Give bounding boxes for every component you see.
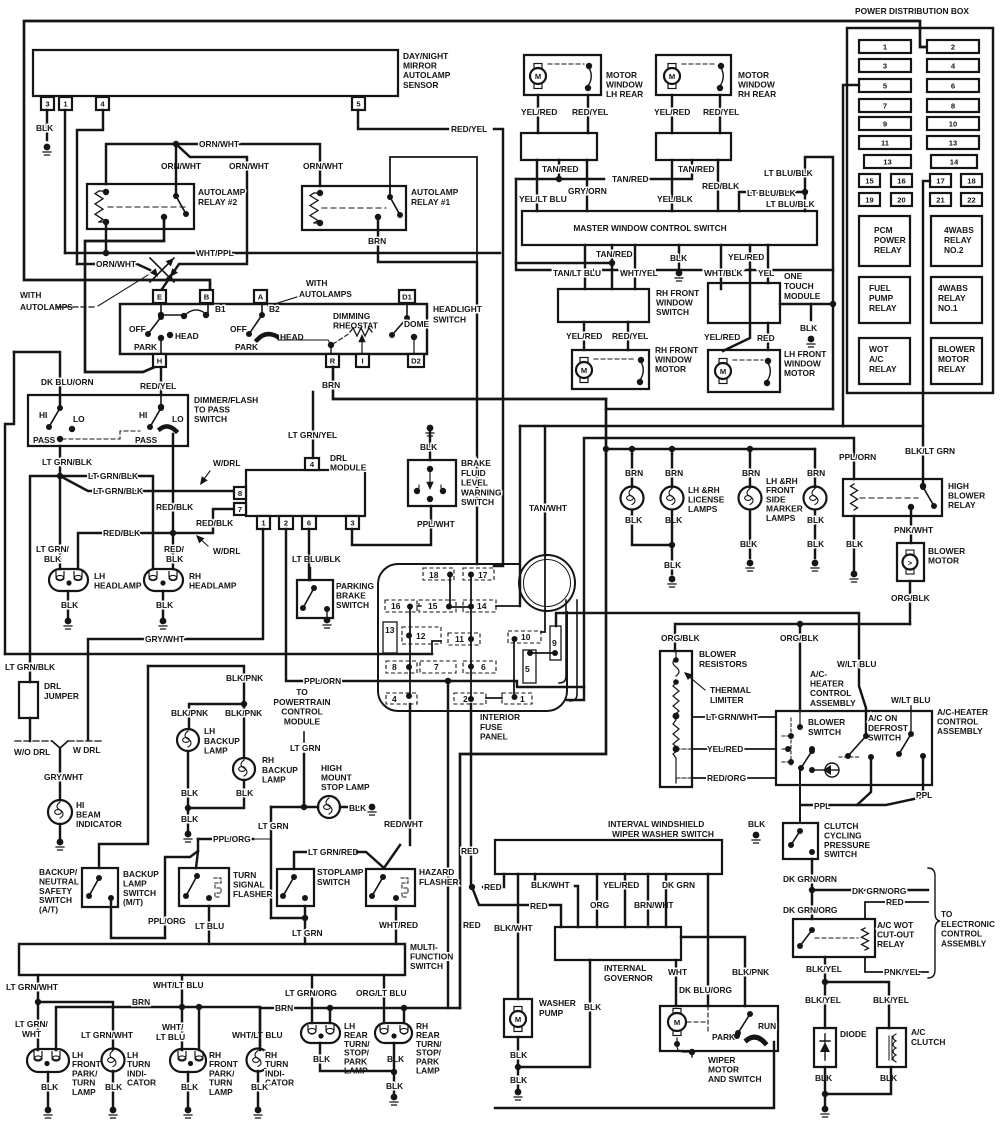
svg-text:YEL/RED: YEL/RED [566,331,602,341]
svg-text:PASS: PASS [135,435,158,445]
wire to I pin [361,345,363,354]
junction BRN bus x672 [669,446,675,452]
svg-text:INTERNAL: INTERNAL [604,963,646,973]
wire ORN/WHT down to relay2 contact [175,147,177,195]
wire BRN lamp1 [631,449,633,487]
relay2 dashed link [108,206,188,208]
component DIMMER/FLASH TO PASS SWITCH box [28,395,188,446]
wire license BLK ground [671,510,673,574]
component RH REAR TURN/STOP/PARK LAMP [375,1023,412,1043]
svg-text:9: 9 [883,120,887,129]
wire RED pin jog [483,874,504,887]
svg-text:RED/YEL: RED/YEL [703,107,739,117]
junction BRN bus x750 [747,446,753,452]
dimmer right arm [150,408,161,427]
interior fuse 12 [402,627,441,644]
svg-text:TO PASS: TO PASS [194,405,230,415]
pin 3 of sensor [41,97,54,110]
svg-text:7: 7 [434,662,439,672]
junction DK GRN/ORG [809,887,815,893]
thick RUN position arc [747,1037,765,1043]
svg-text:BLK: BLK [156,600,173,610]
svg-text:M: M [674,1018,680,1027]
thick LO position arc [160,426,176,431]
svg-text:12: 12 [416,631,426,641]
svg-text:BLOWER: BLOWER [808,717,845,727]
wire dimmer to LT GRN/BLK node [59,446,61,476]
svg-text:BLK: BLK [665,515,682,525]
svg-text:LT GRN/: LT GRN/ [15,1019,49,1029]
svg-text:LH FRONT: LH FRONT [784,349,827,359]
svg-text:BLK: BLK [846,539,863,549]
component LH FRONT WINDOW MOTOR box [708,350,780,392]
svg-text:BRN: BRN [742,468,760,478]
wire RED one touch to motor [767,323,769,350]
wire PPL/ORG riser [165,851,198,938]
ground HI beam indicator [56,839,64,850]
svg-text:BLK: BLK [880,1073,897,1083]
svg-text:21: 21 [936,196,945,205]
svg-text:LT GRN: LT GRN [292,928,323,938]
wire YEL/RED RH front [583,322,585,350]
svg-text:WHT: WHT [668,967,688,977]
svg-text:RED/: RED/ [164,544,185,554]
svg-text:OFF: OFF [230,324,247,334]
svg-text:BLK: BLK [41,1082,58,1092]
svg-text:MIRROR: MIRROR [403,61,437,71]
svg-text:19: 19 [865,196,873,205]
relay1 common contact [375,214,381,220]
junction WHT/LT BLU [179,1004,185,1010]
wire RED/WHT fuse4 down [409,704,411,845]
svg-text:LAMP: LAMP [209,1087,233,1097]
fuse 15 power box small [859,174,880,187]
wire PNK/YEL [865,957,928,972]
wire RED/BLK pin7 run [78,509,234,569]
junction BLK license [669,542,675,548]
pin 3 DRL module [346,516,359,529]
svg-text:BRN: BRN [132,997,150,1007]
svg-text:E: E [157,293,162,302]
interior fuse 6 [463,661,496,673]
leader thermal limiter [686,674,705,690]
dash link rheostat [333,333,350,344]
svg-text:ORN/WHT: ORN/WHT [96,259,137,269]
svg-text:WINDOW: WINDOW [738,80,775,90]
wire BRN to RH park lamp [198,1007,200,1050]
svg-text:WHT/LT BLU: WHT/LT BLU [232,1030,283,1040]
pin 2 DRL module [279,516,293,529]
wire RED/YEL RH rear [719,95,721,133]
ground backup lamps [184,831,192,842]
component TURN SIGNAL FLASHER box [179,868,229,906]
svg-text:RH: RH [262,755,274,765]
svg-text:OFF: OFF [129,324,146,334]
wire ORG/BLK into blower switch [799,711,801,725]
wire LT GRN/BLK long line [5,653,432,655]
fuse 2R power box [927,40,979,53]
svg-text:HAZARD: HAZARD [419,867,454,877]
svg-text:LT GRN: LT GRN [290,743,321,753]
svg-text:YEL: YEL [758,268,774,278]
component INTERNAL GOVERNOR box [555,927,681,960]
component STOPLAMP SWITCH box [277,869,314,906]
wire PPL/ORG horizontal [198,838,253,840]
illumination lamp symbol [823,763,839,777]
svg-text:PPL: PPL [916,790,932,800]
svg-text:FLUID: FLUID [461,468,486,478]
svg-text:LO: LO [172,414,184,424]
svg-text:LT GRN: LT GRN [258,821,289,831]
wire jumper to W/O DRL connector [29,718,31,741]
svg-text:RED/YEL: RED/YEL [451,124,487,134]
svg-text:7: 7 [883,102,887,111]
svg-text:ORN/WHT: ORN/WHT [199,139,240,149]
rheostat zigzag [350,328,372,336]
fuse 10R power box [927,117,979,130]
motor M RH front [576,358,592,383]
junction BLK [822,1091,828,1097]
svg-text:RED: RED [484,882,502,892]
ground pin3 [43,144,51,155]
wire LH park ground [47,1072,49,1106]
wire WHT/RED [395,906,397,944]
wire ORG/BLK blower motor [909,581,911,624]
wire TAN/RED stub LH [558,160,560,179]
svg-text:LT BLU/BLK: LT BLU/BLK [747,188,796,198]
svg-text:I: I [361,357,363,366]
svg-text:DOME: DOME [404,319,430,329]
svg-text:MODULE: MODULE [330,463,367,473]
svg-text:PASS: PASS [33,435,56,445]
svg-text:6: 6 [307,519,311,528]
svg-text:ORN/WHT: ORN/WHT [303,161,344,171]
fuse 7 power box [859,99,911,112]
junction BLK backup [185,805,191,811]
pin I [356,354,369,367]
ground marker RH [811,560,819,571]
wire LT BLU/BLK into parking brake [309,568,311,580]
svg-text:DK GRN/ORG: DK GRN/ORG [852,886,906,896]
svg-text:W/LT BLU: W/LT BLU [891,695,930,705]
component side marker lamp LH [739,487,762,510]
wire DK BLU/ORG to wiper motor [707,874,709,1006]
fuse 4R power box [927,59,979,72]
clutch cycling switch arm [791,831,800,845]
wire defrost common PPL to clutch cycling switch [801,757,871,805]
wire DK GRN/ORN [811,859,813,890]
wire fuse14 to rail [496,605,520,607]
svg-text:DAY/NIGHT: DAY/NIGHT [403,51,449,61]
svg-text:BLK: BLK [105,1082,122,1092]
junction RED/BLK [170,530,176,536]
svg-text:WITH: WITH [306,278,327,288]
RH rear switch contact [718,63,724,69]
wire RUN to bottom rail [495,1042,774,1108]
wire BLK/PNK to backup lamp switch [99,666,148,868]
svg-text:CONTROL: CONTROL [937,717,978,727]
svg-text:YEL/RED: YEL/RED [521,107,557,117]
svg-text:2: 2 [284,519,288,528]
svg-text:RED: RED [757,333,775,343]
LH front motor contact [765,358,771,364]
svg-text:ASSEMBLY: ASSEMBLY [941,938,987,948]
relay1 dashed link [322,207,386,209]
svg-text:BRN: BRN [625,468,643,478]
svg-text:SENSOR: SENSOR [403,80,438,90]
component RH FRONT PARK/TURN LAMP [170,1049,206,1072]
fuse 22 power box small [961,193,982,206]
svg-text:RH FRONT: RH FRONT [655,345,699,355]
wire diode BLK [824,1067,826,1094]
svg-text:TO: TO [941,909,953,919]
svg-text:INTERVAL WINDSHIELD: INTERVAL WINDSHIELD [608,819,704,829]
svg-text:HEAD: HEAD [175,331,199,341]
svg-text:TAN/RED: TAN/RED [678,164,715,174]
wire pin4 down (ORN/WHT) [77,110,103,264]
wire RH rear BLK [393,1043,395,1094]
svg-text:20: 20 [897,196,905,205]
svg-text:H: H [157,357,162,366]
svg-text:15: 15 [428,601,438,611]
junction LT GRN [302,915,308,921]
wire RED/BLK RH rear [717,160,719,211]
wire LT GRN/WHT resistor to A/C switch [692,716,776,718]
ground RH indicator [254,1107,262,1118]
svg-text:RELAY #2: RELAY #2 [198,197,237,207]
wire rail y270 to one-touch riser [516,263,833,270]
wire BLK/PNK governor to wiper motor [681,937,745,1006]
component RH HEADLAMP [144,569,183,591]
svg-text:WINDOW: WINDOW [606,80,643,90]
svg-text:TAN/RED: TAN/RED [542,164,579,174]
svg-text:FUEL: FUEL [869,283,891,293]
pin H [153,354,166,367]
wire to high mount stop lamp [271,806,318,808]
svg-text:11: 11 [881,139,890,148]
wire BRN/WHT [647,874,649,927]
junction relay2 coil / WHT/PPL [103,250,109,256]
wire BRN bus right [260,1007,460,1009]
svg-text:SWITCH: SWITCH [336,600,369,610]
component RH TURN INDICATOR lamp [247,1049,270,1072]
ground marker LH [746,560,754,571]
svg-text:BLK: BLK [670,253,687,263]
wire E pin stub [160,303,162,314]
svg-text:5: 5 [525,664,530,674]
wire LH indicator ground [112,1071,114,1106]
svg-text:RED/WHT: RED/WHT [384,819,424,829]
svg-text:STOPLAMP: STOPLAMP [317,867,364,877]
fuse 8R power box [927,99,979,112]
wiper switch arm [738,1014,750,1033]
wire PPL right pin join [857,758,923,805]
svg-text:LT GRN/ORG: LT GRN/ORG [285,988,337,998]
wire backup switch PPL/ORG [111,898,165,938]
svg-text:6: 6 [481,662,486,672]
backup switch arm [89,878,99,896]
leader dash-dot with autolamps [57,306,96,308]
svg-text:RED: RED [886,897,904,907]
wire RED to governor [472,887,561,927]
svg-text:W/DRL: W/DRL [213,458,240,468]
svg-text:M: M [720,367,726,376]
wire DK GRN/ORG right [812,889,928,891]
svg-text:LT BLU/BLK: LT BLU/BLK [292,554,341,564]
wire BRN to RH rear lamp [403,1008,405,1023]
wire ORG/LT BLU [383,975,385,1023]
interior fuse 9 [550,626,561,660]
svg-text:WIPER WASHER SWITCH: WIPER WASHER SWITCH [612,829,714,839]
svg-text:LT GRN/BLK: LT GRN/BLK [93,486,143,496]
wire LT BLU/BLK riser x833 [805,157,833,409]
svg-text:LT GRN/WHT: LT GRN/WHT [81,1030,134,1040]
svg-text:9: 9 [552,638,557,648]
svg-text:WINDOW: WINDOW [655,355,692,365]
component AUTOLAMP RELAY #1 box [302,186,406,230]
svg-text:LAMP: LAMP [204,746,228,756]
wire ORG/BLK bus [675,624,910,651]
wire junction down to BRN bus right end [447,681,449,1008]
svg-text:POWER DISTRIBUTION BOX: POWER DISTRIBUTION BOX [855,6,969,16]
component BLOWER MOTOR RELAY box [931,338,982,384]
ground master switch [675,270,683,281]
svg-text:LT GRN/WHT: LT GRN/WHT [706,712,759,722]
wire LT BLU [208,906,210,944]
wire BLK/PNK bus [189,704,244,729]
svg-text:4WABS: 4WABS [944,225,974,235]
svg-text:ORG: ORG [590,900,609,910]
svg-text:LEVEL: LEVEL [461,478,488,488]
pin 4 of sensor [96,97,109,110]
wire fuse16-12-8-4 link [409,607,411,696]
svg-text:ORN/WHT: ORN/WHT [229,161,270,171]
svg-text:BLK: BLK [236,788,253,798]
ground diode/clutch [821,1106,829,1117]
component BACKUP LAMP SWITCH box [82,868,118,907]
junction RED [469,884,475,890]
wire LT GRN/BLK to DRL module pin8 [60,476,234,491]
component POWER DISTRIBUTION BOX outline [847,28,993,393]
fuse 13R power box [927,136,979,149]
svg-text:YEL/RED: YEL/RED [654,107,690,117]
junction BRN bus left [603,446,609,452]
pin A [254,290,267,303]
svg-text:BLK: BLK [61,600,78,610]
svg-text:HI: HI [39,410,47,420]
junction BRN RH park [196,1004,202,1010]
WOT relay arm [800,930,812,946]
wire BRN lamp2 [671,449,673,487]
svg-text:FLASHER: FLASHER [233,889,273,899]
ground high mount stop lamp [368,804,376,815]
svg-text:BLK: BLK [181,814,198,824]
svg-text:RED: RED [530,901,548,911]
svg-text:YEL/LT BLU: YEL/LT BLU [519,194,567,204]
svg-text:BLK/YEL: BLK/YEL [805,995,841,1005]
relay1 switch arm [390,197,400,215]
component DRL MODULE box [246,470,365,516]
svg-text:BLK/YEL: BLK/YEL [806,964,842,974]
svg-text:(A/T): (A/T) [39,905,58,915]
svg-text:WASHER: WASHER [539,998,576,1008]
svg-text:BLOWER: BLOWER [948,491,985,501]
connector crossed arrows symbol [150,258,174,282]
svg-text:A/C-: A/C- [810,669,827,679]
svg-text:A/C: A/C [869,354,883,364]
wire BLK/YEL to A/C clutch [825,982,889,1028]
svg-text:15: 15 [865,177,874,186]
component MOTOR WINDOW LH REAR box [524,55,601,95]
pin 7 DRL module [234,503,246,515]
fuse 13 power box [864,155,911,168]
wire YEL/RED wiper [624,874,626,927]
wire washer ground [517,1067,519,1088]
svg-text:11: 11 [455,634,464,644]
svg-text:M: M [535,72,541,81]
interior fuse 14 [463,600,496,612]
wire curved corner stubs right of panel [559,600,566,683]
fuse 19 power box small [859,193,880,206]
svg-text:INDICATOR: INDICATOR [76,819,122,829]
wire RED/YEL RH front [627,322,629,350]
ground license lamps [668,576,676,587]
svg-text:BRN: BRN [368,236,386,246]
interior fuse 5 [523,650,536,683]
svg-text:MOTOR: MOTOR [938,354,969,364]
svg-text:SWITCH: SWITCH [656,307,689,317]
wire to R pin [330,346,332,354]
svg-text:YEL/RED: YEL/RED [728,252,764,262]
component LH HEADLAMP [49,569,88,591]
svg-text:RELAY: RELAY [948,500,976,510]
ground LH headlamp [64,618,72,629]
svg-text:SWITCH: SWITCH [317,877,350,887]
stoplamp switch arm [283,877,294,896]
wire W/LT BLU from fuse9 line [859,615,866,733]
contact PARK/H left [158,335,164,341]
motor M LH rear [530,64,546,89]
svg-text:MOTOR: MOTOR [655,364,686,374]
wire fuse18-15-14 link [450,577,471,607]
wire BLK/WHT to washer pump [517,874,519,999]
defrost switch arm [848,736,866,756]
svg-text:13: 13 [385,625,395,635]
wire BRN to LH rear lamp [329,1008,331,1023]
svg-text:18: 18 [429,570,439,580]
svg-text:MOUNT: MOUNT [321,773,353,783]
svg-text:LO: LO [73,414,85,424]
svg-text:(M/T): (M/T) [123,897,143,907]
RH front motor contact [638,357,644,363]
wire DK GRN/ORG to WOT relay [811,890,813,919]
svg-text:A/C: A/C [911,1027,925,1037]
svg-text:WARNING: WARNING [461,487,501,497]
blower switch contacts [797,724,803,730]
component 4WABS RELAY NO.1 box [931,277,982,323]
svg-text:ORG/BLK: ORG/BLK [891,593,930,603]
svg-text:B: B [204,293,210,302]
wire clutch BLK join [825,1067,891,1094]
LH rear switch contact [586,63,592,69]
svg-text:RELAY: RELAY [938,364,966,374]
component license lamp LH [621,487,644,510]
svg-text:WHT/BLK: WHT/BLK [704,268,743,278]
svg-text:D1: D1 [402,293,412,302]
wire BRN bus left [56,1007,260,1050]
leader line to A [268,297,297,306]
component A/C WOT CUT-OUT RELAY box [793,919,875,957]
